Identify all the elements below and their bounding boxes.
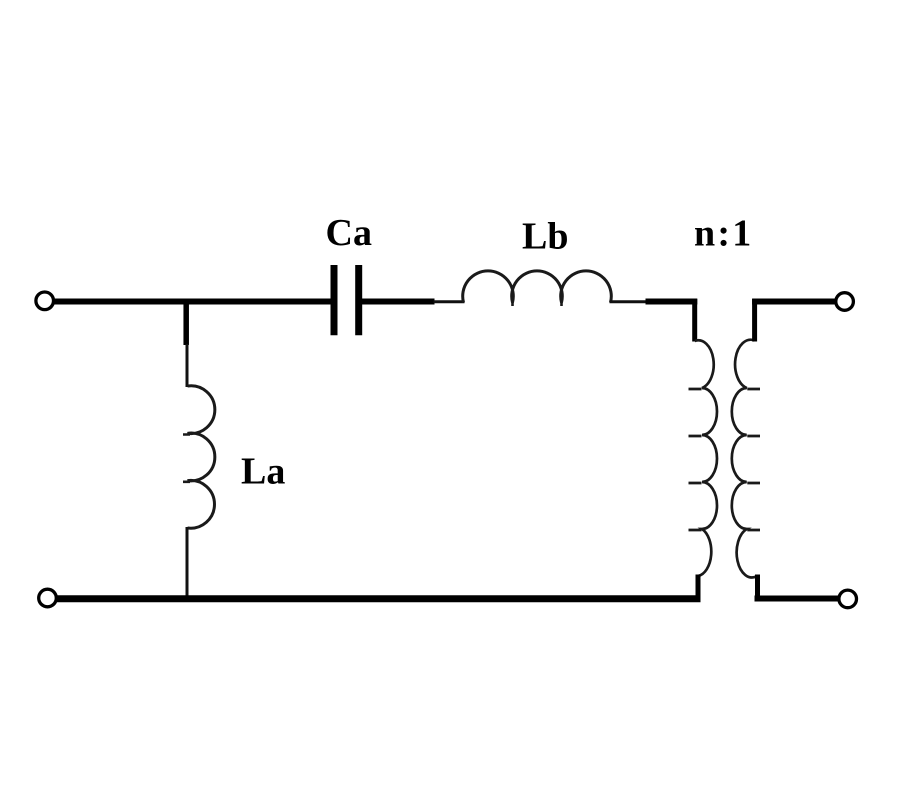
wire Ca to Lb (thick part): [362, 299, 435, 305]
bottom rail wire: [57, 595, 701, 602]
terminal T3 top-right: [836, 293, 854, 311]
inductor La cusp ticks: [183, 435, 190, 482]
transformer secondary top lead: [752, 299, 757, 342]
wire Lb to transformer (thick part): [646, 299, 698, 305]
inductor Lb: [463, 271, 612, 303]
transformer primary winding: [695, 340, 717, 576]
transformer primary cusp ticks: [689, 389, 702, 530]
transformer secondary winding: [732, 340, 757, 578]
inductor Lb cusp ticks: [513, 301, 562, 307]
wire Ca to Lb (thin part): [434, 300, 465, 303]
svg-text:n:1: n:1: [694, 213, 753, 255]
node A junction stub (thick): [183, 302, 189, 346]
wire node A to La (thin): [186, 344, 189, 387]
wire secondary to T3: [752, 299, 836, 305]
capacitor Ca left plate: [331, 265, 338, 335]
terminal T4 bottom-right: [839, 590, 857, 608]
terminal T2 bottom-left: [39, 589, 57, 607]
svg-text:La: La: [241, 451, 285, 493]
wire Lb to transformer (thin part): [610, 300, 647, 303]
inductor La: [188, 386, 215, 528]
wire top-left (T1 to Ca): [54, 299, 332, 305]
capacitor Ca right plate: [355, 265, 362, 335]
svg-text:Lb: Lb: [522, 216, 568, 258]
terminal T1 top-left: [36, 292, 54, 310]
wire La bottom (thin): [186, 527, 189, 599]
transformer secondary bottom lead: [755, 575, 760, 602]
transformer primary bottom lead: [696, 575, 701, 602]
transformer secondary cusp ticks: [747, 389, 760, 530]
svg-text:Ca: Ca: [326, 212, 372, 254]
transformer primary top lead: [692, 299, 697, 342]
wire secondary to T4: [755, 596, 840, 602]
